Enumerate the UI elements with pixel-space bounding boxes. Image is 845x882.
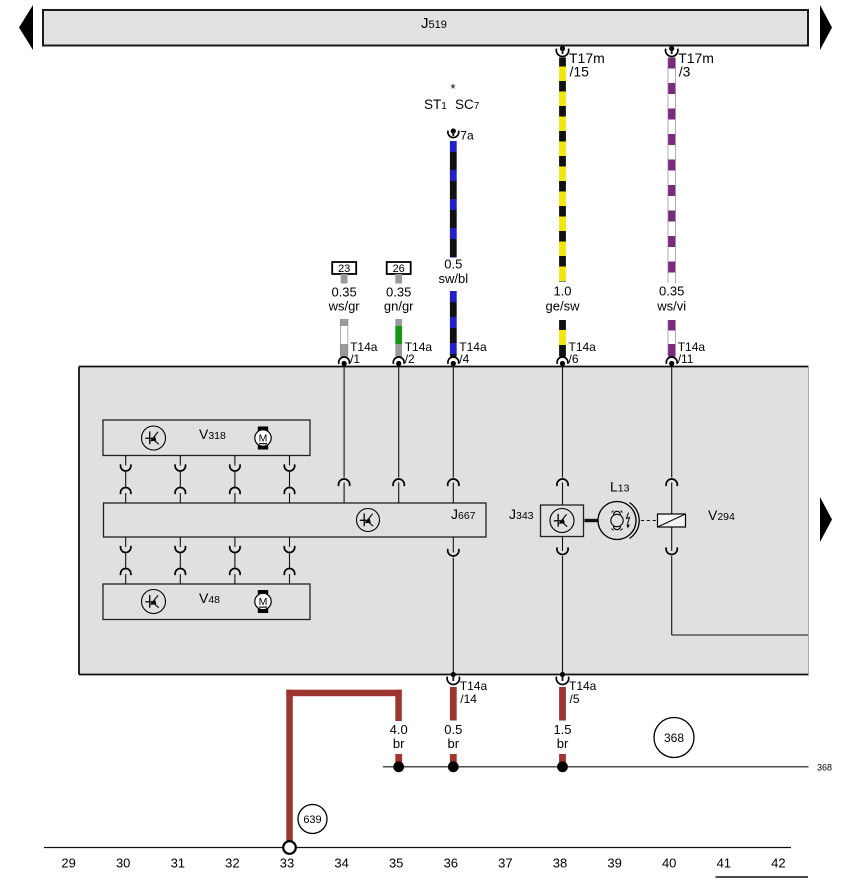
svg-text:639: 639 xyxy=(303,814,321,826)
svg-text:4.0: 4.0 xyxy=(390,722,408,737)
svg-text:br: br xyxy=(448,736,460,751)
svg-text:23: 23 xyxy=(338,263,350,275)
svg-text:26: 26 xyxy=(393,263,405,275)
svg-text:T14a: T14a xyxy=(569,679,597,693)
svg-text:1.5: 1.5 xyxy=(553,722,571,737)
svg-text:br: br xyxy=(557,736,569,751)
svg-text:/3: /3 xyxy=(679,64,691,80)
svg-text:ws/vi: ws/vi xyxy=(656,299,686,314)
svg-text:/11: /11 xyxy=(678,352,694,366)
svg-text:30: 30 xyxy=(116,856,130,871)
svg-text:gn/gr: gn/gr xyxy=(384,299,414,314)
svg-text:M: M xyxy=(259,432,268,444)
svg-text:/6: /6 xyxy=(569,352,579,366)
svg-text:36: 36 xyxy=(444,856,458,871)
svg-text:368: 368 xyxy=(817,763,832,773)
svg-text:32: 32 xyxy=(225,856,239,871)
svg-text:/15: /15 xyxy=(570,64,590,80)
svg-text:42: 42 xyxy=(771,856,785,871)
svg-text:/5: /5 xyxy=(570,692,580,706)
svg-text:T14a: T14a xyxy=(460,679,488,693)
svg-text:37: 37 xyxy=(498,856,512,871)
svg-text:39: 39 xyxy=(607,856,621,871)
svg-text:/14: /14 xyxy=(460,692,477,706)
svg-text:31: 31 xyxy=(171,856,185,871)
svg-text:29: 29 xyxy=(61,856,75,871)
svg-text:33: 33 xyxy=(280,856,294,871)
svg-text:*: * xyxy=(450,81,455,96)
svg-text:0.35: 0.35 xyxy=(331,285,356,300)
svg-text:34: 34 xyxy=(334,856,348,871)
svg-text:/4: /4 xyxy=(459,352,469,366)
svg-text:40: 40 xyxy=(662,856,676,871)
svg-text:0.5: 0.5 xyxy=(444,722,462,737)
svg-text:/2: /2 xyxy=(405,352,415,366)
svg-text:0.5: 0.5 xyxy=(444,257,462,272)
svg-text:41: 41 xyxy=(717,856,731,871)
svg-text:368: 368 xyxy=(664,731,684,745)
svg-text:38: 38 xyxy=(553,856,567,871)
svg-text:0.35: 0.35 xyxy=(386,285,411,300)
svg-text:sw/bl: sw/bl xyxy=(438,271,468,286)
svg-text:0.35: 0.35 xyxy=(659,284,684,299)
svg-text:1.0: 1.0 xyxy=(553,284,571,299)
svg-text:M: M xyxy=(259,596,268,608)
svg-text:ge/sw: ge/sw xyxy=(546,299,581,314)
svg-text:35: 35 xyxy=(389,856,403,871)
svg-text:/1: /1 xyxy=(350,352,360,366)
svg-text:ws/gr: ws/gr xyxy=(328,299,361,314)
svg-text:7a: 7a xyxy=(460,129,474,143)
svg-text:br: br xyxy=(393,736,405,751)
